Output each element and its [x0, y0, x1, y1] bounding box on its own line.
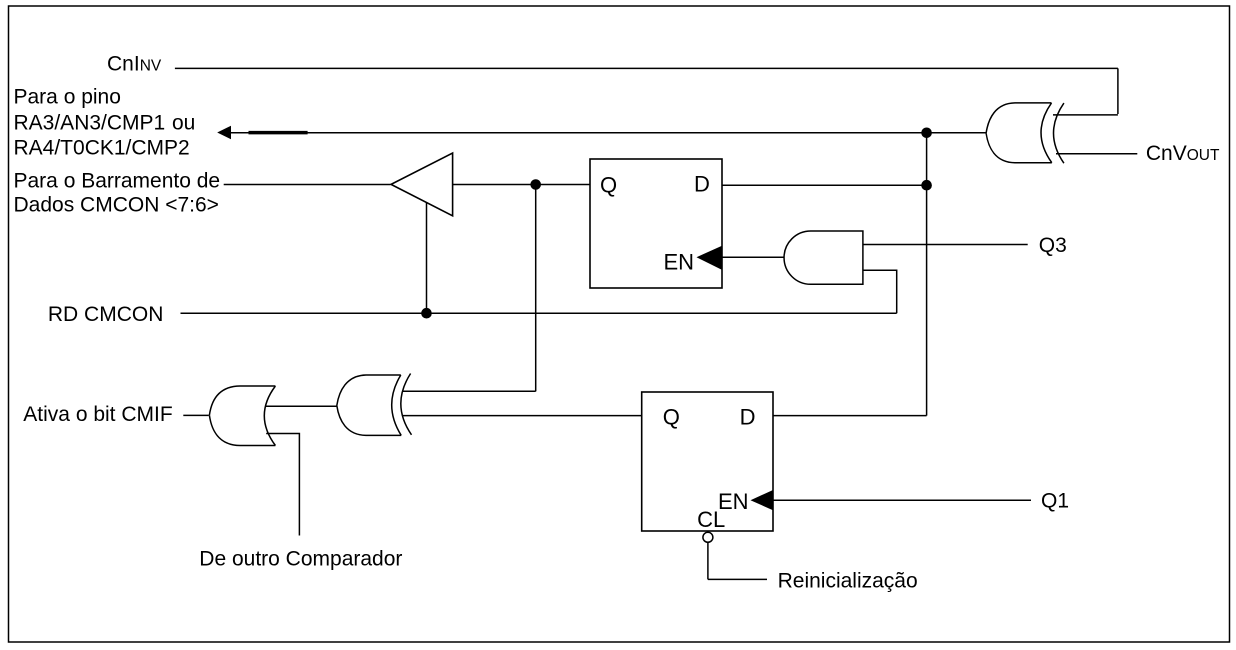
xor gate U5 (points left) — [337, 374, 412, 436]
svg-text:Para o Barramento de: Para o Barramento de — [14, 169, 221, 192]
wire OR top input to XOR U5 output — [266, 405, 338, 407]
svg-text:Q: Q — [600, 173, 617, 198]
wire CnINV horizontal — [175, 67, 1118, 69]
U4 EN arrowhead — [751, 490, 774, 510]
svg-text:EN: EN — [664, 250, 695, 275]
svg-text:RD CMCON: RD CMCON — [48, 303, 163, 326]
svg-text:Ativa o bit CMIF: Ativa o bit CMIF — [23, 403, 172, 426]
svg-text:Dados CMCON <7:6>: Dados CMCON <7:6> — [14, 194, 219, 217]
svg-text:Q3: Q3 — [1039, 234, 1067, 257]
tri-state buffer U2 (triangle points left) — [391, 153, 453, 216]
and gate U6 (points left) — [784, 231, 863, 284]
latch U4 box — [642, 392, 773, 531]
wire AND output to U3 EN — [722, 256, 784, 258]
wire AND top input to Q3 — [863, 244, 1028, 246]
latch U3 box — [590, 159, 722, 288]
svg-text:CL: CL — [697, 507, 725, 532]
svg-text:Q1: Q1 — [1041, 490, 1069, 513]
wire XOR U1 output to pin arrow — [230, 132, 987, 134]
node D junction dot — [421, 308, 432, 319]
node B junction dot — [921, 180, 932, 191]
wire node A vertical to XOR U5 — [535, 185, 537, 392]
xor gate U1 (points left) — [986, 103, 1064, 163]
wire XOR U1 top input — [1053, 114, 1118, 116]
svg-text:D: D — [694, 172, 710, 197]
wire RD CMCON horizontal — [181, 312, 897, 314]
wire reset horizontal — [708, 578, 767, 580]
wire CnINV vertical drop — [1117, 68, 1119, 114]
wire to latch U4 D input — [773, 415, 927, 417]
wire AND bottom input elbow — [863, 270, 897, 313]
wire vertical bus node C to latch U4 D — [926, 133, 928, 416]
wire XOR U5 top input from node A vertical — [403, 390, 536, 392]
wire reset vertical — [707, 542, 709, 579]
wire buffer control vertical — [426, 202, 428, 313]
wire U3 D output to node B — [722, 184, 927, 186]
U4 CL bubble — [703, 532, 713, 542]
wire barramento to buffer tip — [224, 184, 391, 186]
wire XOR U5 bottom input from latch U4 Q — [402, 415, 642, 417]
wire CMIF to OR output — [183, 414, 209, 416]
node A junction dot — [530, 179, 541, 190]
svg-text:RA4/T0CK1/CMP2: RA4/T0CK1/CMP2 — [14, 137, 190, 160]
U3 EN arrowhead — [697, 246, 723, 270]
wire CnVOUT input — [1056, 153, 1137, 155]
svg-text:De outro Comparador: De outro Comparador — [199, 548, 402, 571]
svg-text:D: D — [740, 405, 756, 430]
wire OR bottom input elbow to outro comparador — [266, 434, 299, 536]
wire U4 EN to Q1 — [773, 499, 1031, 501]
svg-text:Q: Q — [663, 405, 680, 430]
or gate U7 (points left) — [209, 386, 275, 446]
arrow to pin (bold) — [217, 126, 231, 140]
svg-text:Para o pino: Para o pino — [14, 85, 121, 108]
wire buffer to latch U3 Q — [453, 184, 590, 186]
node C junction dot — [921, 128, 932, 139]
svg-text:Reinicialização: Reinicialização — [778, 570, 918, 593]
